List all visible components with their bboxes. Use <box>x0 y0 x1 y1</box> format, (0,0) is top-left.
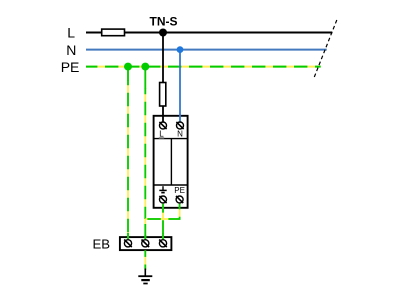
wire EB to ground green dashes <box>144 250 146 270</box>
EB terminal 3 circle <box>159 240 166 247</box>
wire L bus <box>86 32 332 34</box>
wire SPD earth terminal down green dashes <box>162 204 164 239</box>
terminal earth circle <box>160 196 167 203</box>
wire PE drop 2 green tail <box>144 235 146 239</box>
svg-text:L: L <box>67 24 75 40</box>
wire SPD earth terminal down yellow underlay <box>162 204 164 239</box>
wire PE drop 1 green dashes <box>127 80 129 239</box>
wire SPD earth terminal green tail <box>162 233 164 239</box>
wire PE drop 2 green solid head <box>144 67 146 89</box>
EB terminal 1 slash <box>124 240 132 248</box>
svg-text:N: N <box>66 42 76 58</box>
terminal L slash <box>159 122 166 129</box>
svg-text:N: N <box>177 130 183 139</box>
SPD device box <box>154 116 188 208</box>
svg-text:TN-S: TN-S <box>150 15 178 29</box>
EB terminal 2 slash <box>142 240 150 248</box>
svg-text:PE: PE <box>61 59 80 75</box>
grey mark under L <box>159 137 164 139</box>
wire PE drop 1 yellow underlay <box>127 67 129 240</box>
wire SPD PE terminal jog yellow underlay <box>145 204 179 219</box>
terminal L circle <box>160 122 167 129</box>
wire PE drop 2 yellow underlay <box>144 67 146 240</box>
break mark diagonal <box>314 20 337 78</box>
ground symbol <box>138 269 152 284</box>
wire EB to ground yellow underlay <box>144 250 146 270</box>
EB terminal 2 circle <box>142 240 149 247</box>
node on N bus <box>177 46 184 53</box>
SPD middle divider <box>170 139 172 185</box>
wire PE drop 2 green dashes lower <box>144 219 146 239</box>
wire PE drop 2 green dashes upper <box>144 88 146 219</box>
wire SPD PE terminal jog green dashes <box>145 204 179 219</box>
fuse F1 on L bus <box>102 29 125 36</box>
node on L bus <box>159 29 167 37</box>
node PE 2 <box>141 63 149 71</box>
terminal N circle <box>177 122 184 129</box>
svg-text:EB: EB <box>93 236 111 251</box>
wire PE bus green dashes <box>86 66 321 68</box>
svg-text:PE: PE <box>174 186 185 195</box>
wire PE bus yellow underlay <box>86 66 321 68</box>
EB terminal 3 slash <box>159 240 167 248</box>
node PE 1 <box>124 63 132 71</box>
terminal PE slash <box>176 196 183 203</box>
SPD divider top <box>154 138 188 140</box>
wire PE drop 1 green solid head <box>127 67 129 81</box>
fuse F2 vertical <box>160 83 166 107</box>
terminal N slash <box>176 122 183 129</box>
SPD divider bottom <box>154 184 188 186</box>
wire from L node down to SPD <box>162 33 164 123</box>
wire from N node down to SPD <box>179 50 181 122</box>
earth mark in SPD <box>159 186 166 192</box>
EB busbar box <box>120 237 171 250</box>
wire N bus <box>86 49 327 51</box>
wire PE drop 1 green tail <box>127 233 129 239</box>
EB terminal 1 circle <box>124 240 131 247</box>
terminal PE circle <box>176 196 183 203</box>
terminal earth slash <box>159 196 166 203</box>
